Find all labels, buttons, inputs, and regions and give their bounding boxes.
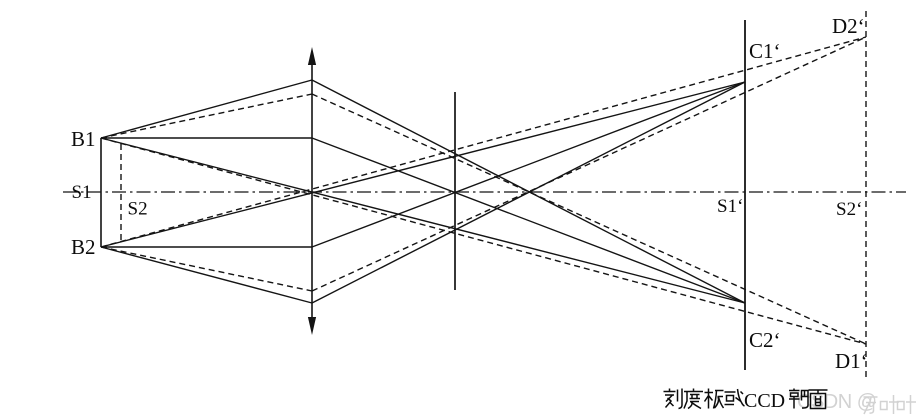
watermark glyph ye: [881, 395, 900, 414]
svg-text:C1‘: C1‘: [749, 39, 781, 63]
svg-text:CCD: CCD: [744, 390, 785, 412]
dashed ray B1 straight to D1': [101, 138, 866, 344]
ray B2 to lens bottom vertex: [101, 247, 312, 303]
lens body line: [311, 58, 313, 324]
image plane S2' dashed line: [865, 11, 867, 380]
svg-text:C2‘: C2‘: [749, 328, 781, 352]
caption glyph mian (face): [809, 390, 828, 409]
svg-text:CSDN @: CSDN @: [797, 391, 877, 413]
svg-text:S2: S2: [128, 199, 148, 220]
dashed ray B2 to lens lower dashed vertex: [101, 247, 312, 291]
dashed ray B1 to lens upper dashed vertex: [101, 94, 312, 138]
optical axis (dash-dot center line): [63, 191, 906, 193]
watermark glyph ye 2: [898, 395, 917, 414]
svg-text:S2‘: S2‘: [836, 199, 862, 220]
ray B2 horizontal to lens: [101, 246, 312, 248]
lens top arrowhead: [308, 47, 316, 65]
svg-text:B2: B2: [71, 235, 96, 259]
lens bottom arrowhead: [308, 317, 316, 335]
caption glyph ban (board): [705, 389, 724, 409]
dashed ray lens lower dashed vertex to D2': [312, 37, 866, 291]
object S2 dashed line: [120, 144, 122, 244]
svg-text:D2‘: D2‘: [832, 14, 865, 38]
ray B2 straight through lens center to C1': [101, 82, 745, 247]
ray lens to C1' through stop center: [312, 82, 745, 247]
ray lens bottom vertex to C1': [312, 82, 745, 303]
image plane (scale plate) line: [744, 20, 746, 370]
svg-text:B1: B1: [71, 127, 96, 151]
ray lens to C2' through stop center: [312, 138, 745, 303]
ray B1 to lens top vertex: [101, 80, 312, 138]
svg-text:D1‘: D1‘: [835, 349, 868, 373]
object S1 line (B1-B2): [100, 138, 102, 247]
watermark glyph wan: [864, 397, 878, 414]
svg-text:S1: S1: [72, 182, 92, 203]
ray B1 horizontal to lens: [101, 137, 312, 139]
ray B1 straight through lens center to C2': [101, 138, 745, 303]
dashed ray B2 straight to D2': [101, 37, 866, 247]
dashed ray lens upper dashed vertex to D1': [312, 94, 866, 344]
caption glyph ke (carve): [664, 389, 683, 409]
caption glyph du (degree): [684, 389, 703, 409]
caption glyph ba (target): [789, 389, 808, 409]
aperture stop line: [454, 92, 456, 290]
svg-text:S1‘: S1‘: [717, 196, 743, 217]
caption glyph huo (or): [725, 389, 745, 406]
ray lens top vertex to C2': [312, 80, 745, 303]
